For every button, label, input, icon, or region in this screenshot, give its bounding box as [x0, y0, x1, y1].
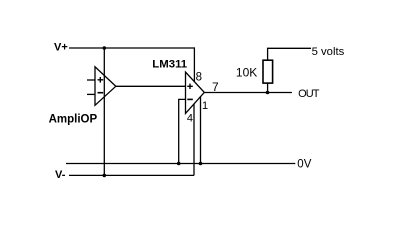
wire V- rail [69, 174, 194, 176]
wire V+ rail [69, 47, 194, 49]
wire pin 1 to 0V [200, 96, 202, 163]
svg-text:OUT: OUT [298, 88, 320, 100]
svg-text:10K: 10K [236, 66, 257, 80]
svg-text:8: 8 [196, 72, 202, 84]
svg-text:5 volts: 5 volts [312, 46, 345, 58]
wire 5 volts rail [268, 47, 311, 49]
svg-text:1: 1 [202, 100, 208, 112]
op-amp - input stub [87, 93, 95, 95]
svg-text:V+: V+ [54, 42, 68, 54]
wire comparator output pin 7 [204, 92, 292, 94]
svg-text:AmpliOP: AmpliOP [49, 114, 98, 126]
wire op-amp supply V+ to V- [103, 48, 105, 175]
junction dot pin1 on 0V [199, 162, 203, 166]
op-amp + input stub [87, 79, 95, 81]
wire resistor top lead [267, 48, 269, 61]
wire op-amp output to LM311 + input [116, 85, 186, 87]
resistor R 10K body [263, 60, 273, 83]
wire LM311 pin 8 drop from V+ [193, 47, 195, 82]
comparator + symbol [187, 84, 193, 89]
junction dot - return on 0V [177, 162, 181, 166]
op-amp - symbol [98, 92, 104, 94]
comparator U2 LM311 triangle [186, 72, 205, 113]
wire resistor bottom lead [267, 83, 269, 92]
op-amp + symbol [98, 77, 104, 83]
svg-text:4: 4 [187, 113, 193, 125]
svg-text:V-: V- [55, 169, 66, 181]
junction dot on V- rail [103, 174, 107, 178]
junction dot on V+ rail [103, 46, 107, 50]
op-amp U1 AmpliOP triangle [95, 67, 116, 106]
svg-text:0V: 0V [297, 158, 311, 170]
wire 0V rail [66, 163, 295, 165]
wire - input return to 0V [179, 99, 186, 163]
wire pin 4 to V- [193, 104, 195, 176]
comparator - symbol [187, 98, 193, 100]
svg-text:LM311: LM311 [152, 59, 187, 71]
junction dot output node [266, 91, 270, 95]
